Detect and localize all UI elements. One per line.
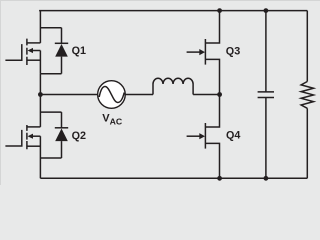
junction: bottom rail / Q4 source: [217, 176, 222, 181]
wire: capacitor to bottom rail: [265, 98, 267, 179]
transistor Q2: [5, 125, 40, 149]
wire: Q1 source to D1 anode branch: [40, 73, 61, 75]
wire: Q2 body-source tie: [39, 136, 41, 158]
wire: Q1 drain to D1 cathode branch: [40, 27, 61, 29]
inductor L1: [153, 78, 193, 94]
junction: top rail / Q3 drain: [217, 8, 222, 13]
wire: top rail to resistor: [306, 11, 308, 82]
svg-text:Q2: Q2: [72, 130, 86, 142]
wire: top rail to Q1 drain: [39, 11, 41, 43]
wire: Q1 body-source tie: [39, 51, 41, 74]
junction: top rail / capacitor: [264, 8, 269, 13]
wire: Q3 drain to top rail: [205, 11, 219, 43]
wire: inductor to node B: [193, 94, 220, 96]
transistor Q4: [187, 123, 206, 149]
wire: node A to V_AC: [40, 94, 98, 96]
wire: Q4 drain to node B: [205, 95, 219, 128]
wire: Q2 source to bottom rail: [39, 158, 41, 178]
AC source V_AC: [98, 81, 126, 109]
junction: bottom rail / capacitor: [264, 176, 269, 181]
wire: Q3 source to node B: [205, 59, 219, 94]
wire: top rail to capacitor: [265, 11, 267, 92]
body diode of Q2: [55, 112, 68, 158]
svg-text:Q4: Q4: [226, 129, 240, 141]
wire: top rail: [39, 10, 307, 12]
capacitor C1: [258, 92, 274, 98]
wire: V_AC to inductor: [125, 94, 153, 96]
svg-text:Q1: Q1: [72, 45, 86, 57]
transistor Q1: [5, 39, 40, 65]
wire: Q2 source to D2 anode branch: [40, 157, 61, 159]
svg-text:Q3: Q3: [226, 45, 240, 57]
wire: bottom rail: [40, 177, 307, 179]
wire: resistor to bottom rail: [306, 108, 308, 178]
resistor R1 (load): [301, 82, 313, 109]
wire: Q1 source to node A: [39, 74, 41, 95]
transistor Q3: [187, 39, 206, 65]
wire: Q2 drain to D2 cathode branch: [40, 111, 61, 113]
wire: node A to Q2 drain: [39, 95, 41, 127]
body diode of Q1: [55, 28, 68, 74]
wire: Q4 source to bottom rail: [205, 143, 219, 178]
junction: node B (right bridge midpoint): [217, 92, 222, 97]
junction: node A (left bridge midpoint): [38, 92, 43, 97]
